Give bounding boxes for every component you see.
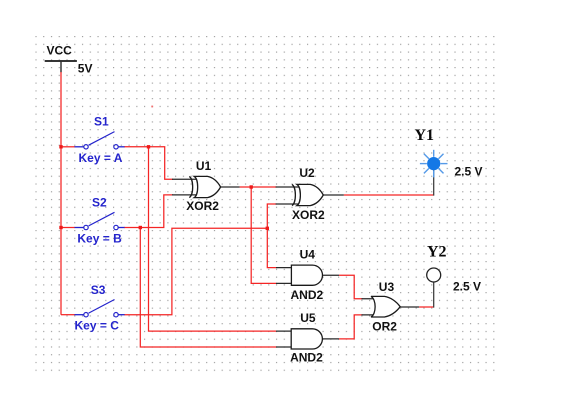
xor gate U2 [292, 184, 323, 205]
and gate U4 [291, 265, 322, 285]
wire B net down to U5.B [140, 228, 276, 348]
stray red speck [151, 106, 153, 108]
junction S2 left [59, 226, 62, 229]
svg-text:2.5 V: 2.5 V [455, 165, 483, 179]
and gate U5 [291, 329, 322, 349]
svg-text:VCC: VCC [47, 43, 73, 57]
xor gate U2 pin stubs [276, 187, 344, 204]
or gate U3 [371, 296, 400, 317]
switch S1 [75, 132, 126, 149]
svg-text:Key = C: Key = C [75, 319, 120, 333]
grid background [35, 36, 497, 373]
svg-text:OR2: OR2 [372, 320, 397, 334]
svg-text:S2: S2 [92, 196, 107, 210]
wire U2 output to probe Y1 [344, 194, 434, 196]
svg-text:2.5 V: 2.5 V [453, 280, 481, 294]
wire U3 output to probe Y2 [419, 306, 434, 308]
svg-text:U3: U3 [379, 280, 395, 294]
wire C net up branch to U2.B [267, 204, 276, 228]
svg-text:Y1: Y1 [415, 127, 435, 144]
probe Y1 pin [433, 169, 435, 195]
svg-text:5V: 5V [78, 62, 93, 76]
wire S1 to U1.A [125, 147, 174, 180]
svg-text:Y2: Y2 [427, 243, 447, 260]
wire S2 to U1.B [125, 195, 174, 228]
wire VCC down to switches [60, 72, 62, 315]
probe Y1 lamp [427, 157, 440, 170]
svg-text:XOR2: XOR2 [292, 208, 325, 222]
wire S3 left stub [61, 314, 75, 316]
wire U5 output to U3.B [339, 315, 363, 339]
switch S2 [75, 212, 126, 229]
and gate U4 pin stubs [276, 268, 339, 284]
junction S1 right / A net [147, 145, 150, 148]
svg-text:U1: U1 [196, 159, 212, 173]
svg-text:XOR2: XOR2 [186, 199, 219, 213]
wire U4 output to U3.A [339, 275, 363, 299]
junction S2 right / B net [139, 226, 142, 229]
or gate U3 pin stubs [362, 299, 420, 315]
switch S3 [75, 300, 126, 317]
svg-text:U5: U5 [300, 311, 316, 325]
probe Y2 pin [433, 282, 435, 308]
xor gate U1 [189, 176, 220, 197]
wire U1out down branch to U4.B [251, 187, 276, 283]
power VCC symbol [45, 61, 77, 73]
svg-text:U4: U4 [300, 247, 316, 261]
probe Y2 lamp [427, 268, 441, 282]
probe Y1 rays [420, 150, 448, 178]
svg-text:Key = B: Key = B [77, 231, 122, 245]
svg-text:AND2: AND2 [290, 351, 323, 365]
svg-text:AND2: AND2 [291, 288, 324, 302]
xor gate U1 pin stubs [172, 179, 240, 195]
junction U1 output [250, 185, 253, 188]
wire S2 left stub [61, 227, 75, 229]
wire A net down to U5.A [149, 147, 277, 331]
svg-text:S1: S1 [94, 114, 109, 128]
wire U1 output to U2.A [240, 186, 277, 188]
wire S1 left stub [61, 146, 75, 148]
svg-text:U2: U2 [299, 166, 315, 180]
wire C net down branch to U4.A [267, 228, 276, 267]
and gate U5 pin stubs [276, 331, 339, 347]
svg-text:Key = A: Key = A [79, 151, 123, 165]
svg-text:S3: S3 [91, 283, 106, 297]
junction C net [266, 227, 269, 230]
junction S1 left [59, 145, 62, 148]
wire C net S3 to U2.B and U4.A [125, 228, 268, 314]
